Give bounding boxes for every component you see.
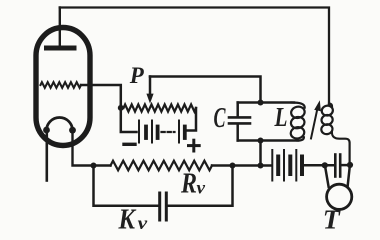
battery B1 plate long (151, 121, 153, 143)
battery B1 plate long (138, 121, 140, 143)
label minus of B1 (124, 143, 135, 146)
svg-text:L: L (274, 102, 288, 132)
capacitor Kv plate (165, 193, 168, 220)
filament end blob left (43, 127, 50, 134)
wire: right filament leg down to node (73, 133, 94, 166)
variable coupling arrow (311, 111, 317, 139)
svg-text:v: v (197, 177, 207, 197)
battery B1 plate short (183, 127, 187, 139)
battery B2 plate short (300, 157, 304, 175)
wire: main line to plate battery (233, 164, 272, 167)
node: phone left junction (322, 162, 328, 168)
svg-text:K: K (118, 204, 137, 235)
wire: top plate line to tickler (60, 8, 329, 105)
tickler coil L2 (329, 104, 332, 107)
battery B2 plate long (283, 150, 285, 181)
label plus of B1 (189, 144, 200, 147)
wire: phone left lead (325, 167, 328, 187)
node: filament / Rv / Kv junction (91, 163, 97, 169)
battery B1 plate long (178, 121, 180, 143)
wire: phone right lead (348, 167, 350, 187)
grid of V1 (zigzag) (41, 82, 82, 88)
plate (anode) bar of V1 (47, 46, 75, 51)
node: tank bottom feed junction (258, 163, 264, 169)
telephone receiver T (327, 184, 352, 209)
wire: tank top rail (238, 101, 294, 104)
svg-text:T: T (323, 204, 342, 234)
wire: main cathode line left segment (94, 164, 111, 167)
wire: tank bottom rail (238, 139, 298, 142)
wiper arrow head of P (146, 94, 153, 104)
blocking capacitor plates (334, 155, 337, 177)
wire: grid lead out right of tube (81, 85, 121, 105)
wire: capacitor to right node (342, 164, 351, 167)
svg-text:R: R (180, 168, 197, 200)
wire: wiper stem (149, 77, 152, 96)
potentiometer P (resistance element) (124, 104, 197, 111)
filament arc of V1 (47, 118, 73, 131)
node: Rv right / Kv junction (230, 163, 236, 169)
node: phone right junction (347, 162, 353, 168)
tank capacitor C plates (229, 116, 250, 119)
wire: plate lead up through envelope (59, 8, 61, 46)
capacitor Kv plate (158, 193, 161, 220)
svg-text:C: C (214, 103, 226, 134)
wire: Rv to node (212, 164, 233, 167)
wire: battery B1 right terminal up to pot right end (186, 108, 196, 131)
inductor L (loop coil) (292, 103, 305, 108)
wire: wiper to tank top (150, 77, 261, 103)
tank capacitor C stem bottom (236, 124, 239, 141)
wire: tank bottom down to main line (259, 141, 262, 166)
battery B1 dashes (more cells) (162, 131, 175, 133)
wire: Kv branch right leg (168, 166, 233, 206)
filament end blob right (69, 127, 76, 134)
wire: Kv branch left leg (94, 166, 159, 206)
svg-text:v: v (138, 213, 149, 233)
wire: battery B2 to phone node (303, 164, 334, 167)
battery B2 plate short (288, 157, 292, 175)
svg-text:P: P (129, 63, 145, 88)
battery B1 plate short (156, 127, 160, 139)
battery B2 plate long (271, 150, 273, 181)
battery B2 plate long (295, 150, 297, 181)
vacuum tube V1 envelope (36, 28, 90, 146)
resistor Rv (111, 161, 213, 171)
node: tank bottom junction (258, 138, 264, 144)
node: tank top junction (258, 100, 264, 106)
battery B2 plate short (276, 157, 280, 175)
wire: pot left end down to battery B1 (121, 105, 137, 132)
node: grid / pot left junction (118, 105, 124, 111)
wire: left filament leg (open end) (45, 133, 48, 181)
tank capacitor C stem top (236, 103, 239, 118)
battery B1 plate short (144, 127, 148, 139)
